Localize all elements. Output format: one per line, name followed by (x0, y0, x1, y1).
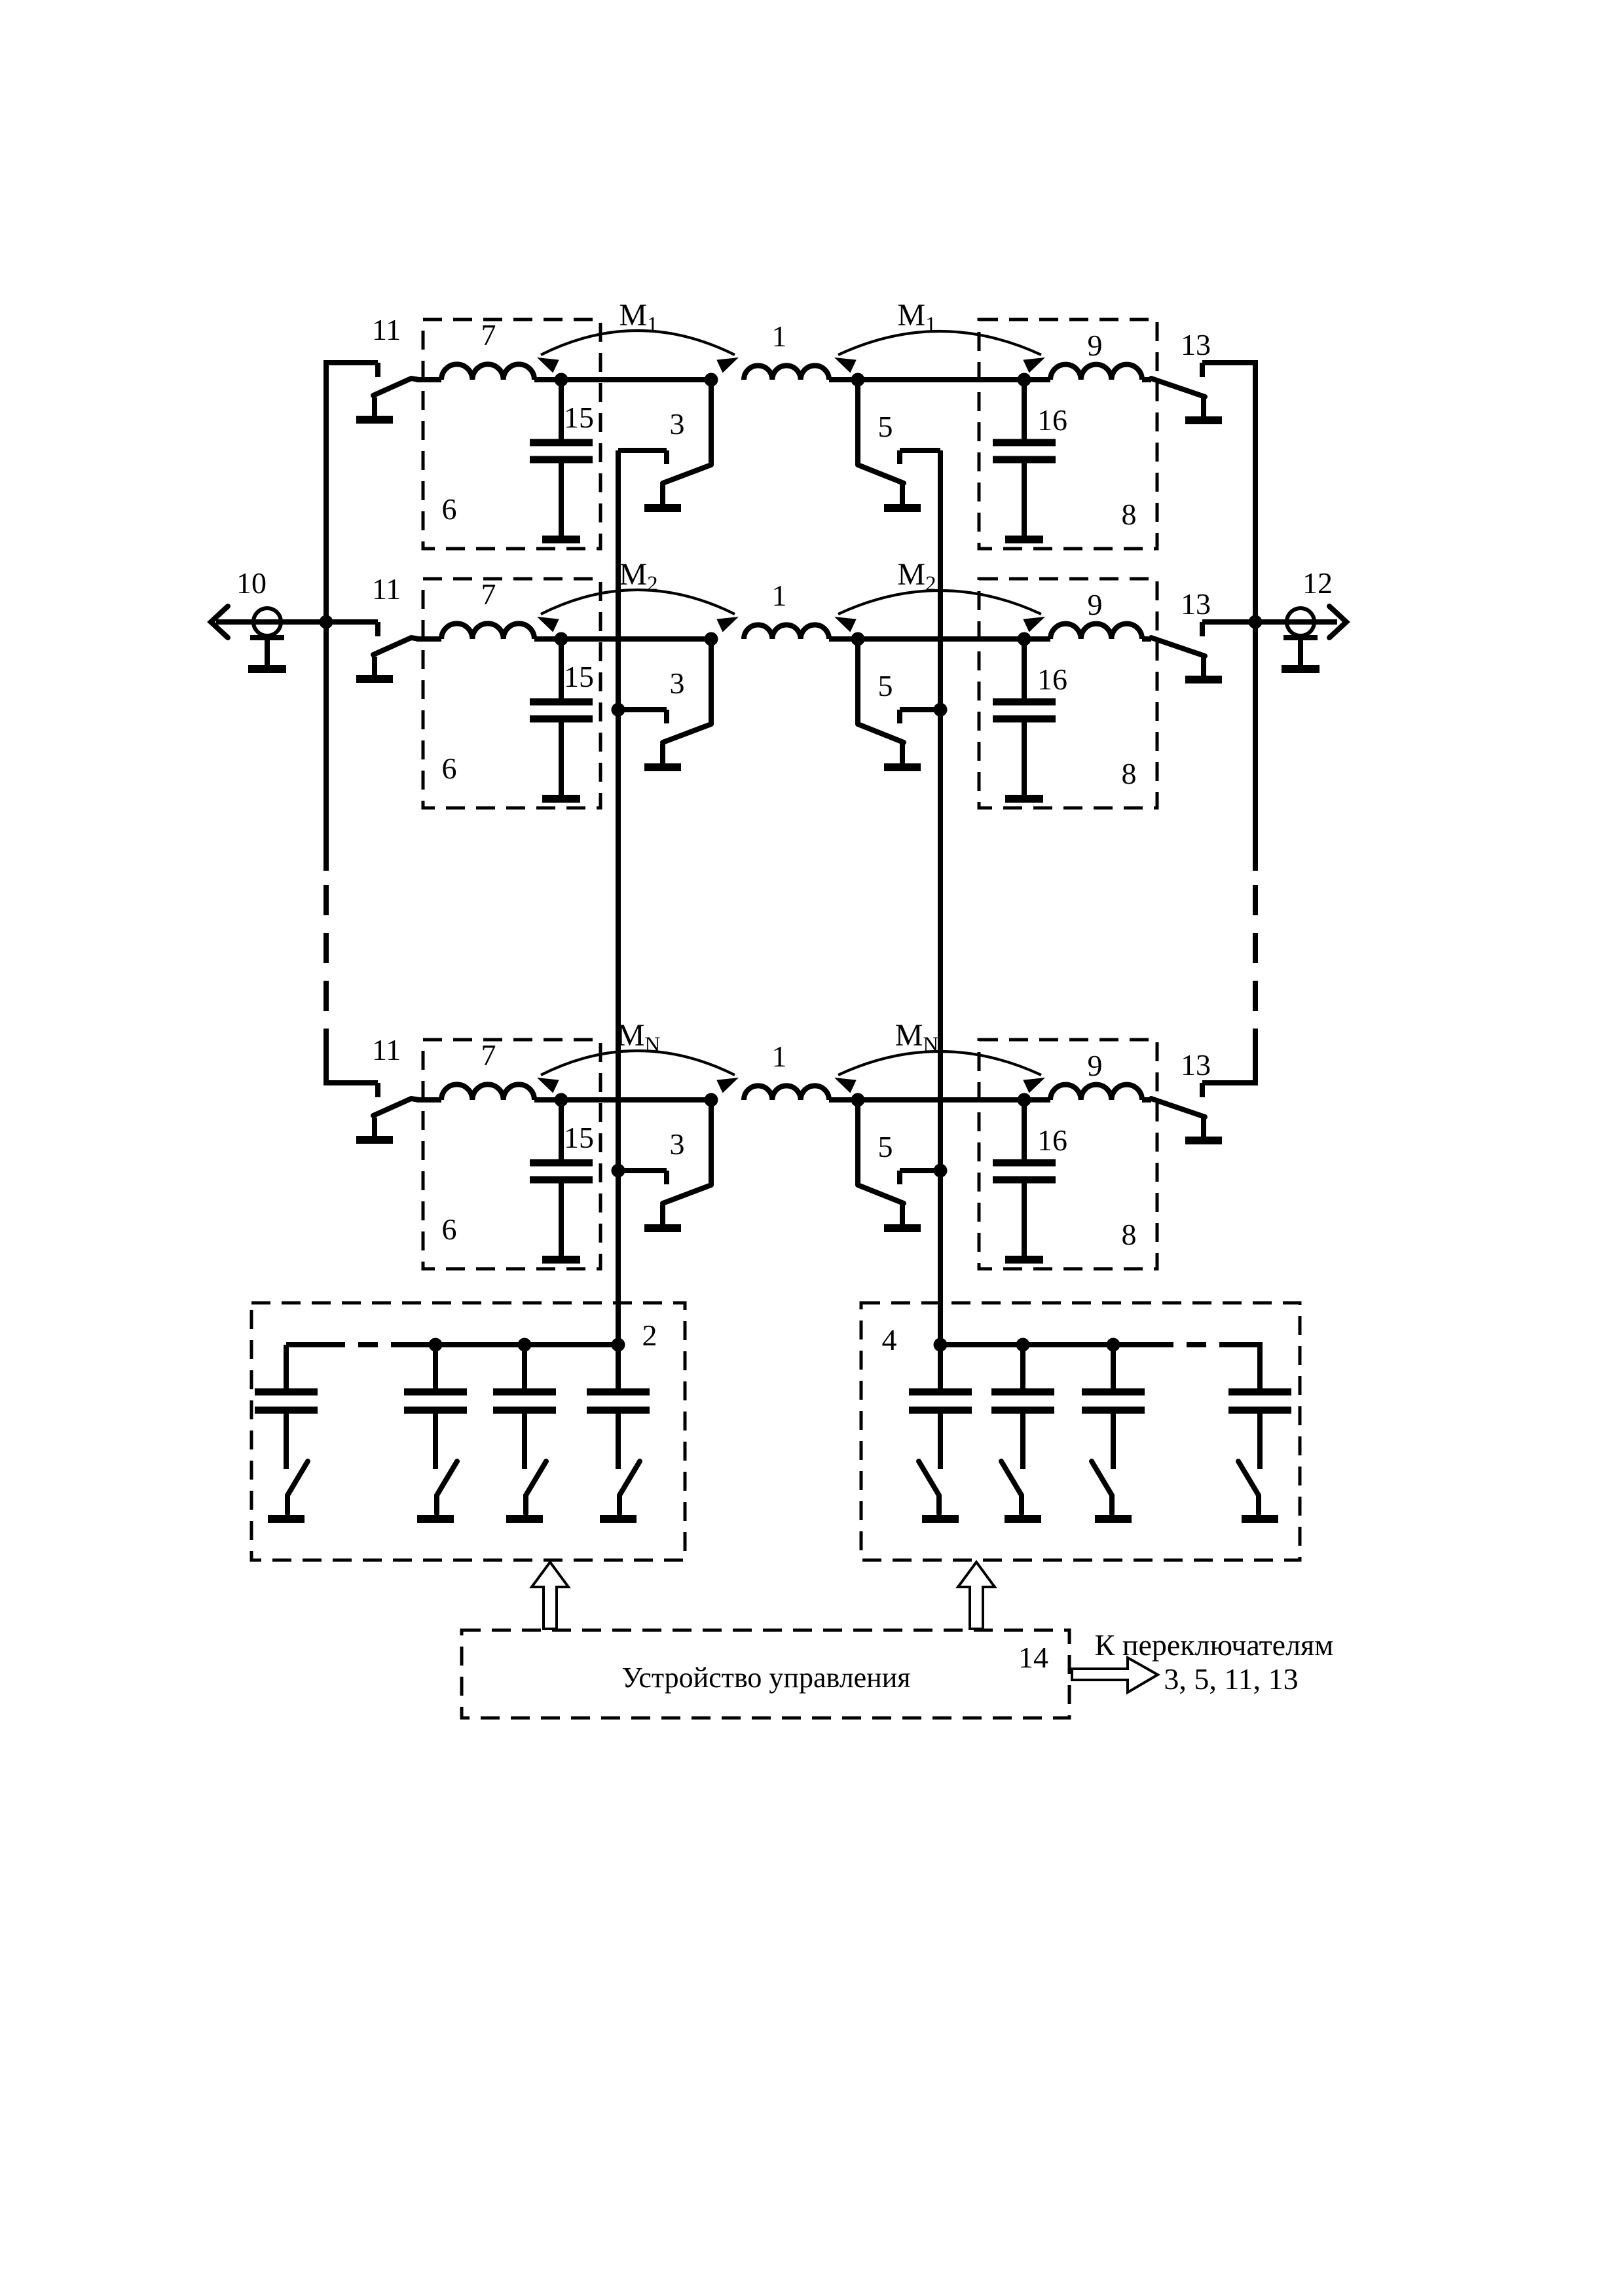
label 11 (row2) (372, 572, 401, 606)
svg-text:11: 11 (372, 572, 401, 606)
switch 3 ground (row3) (644, 1205, 681, 1228)
bank 4 switch 1 (919, 1461, 939, 1514)
label К переключателям (1095, 1628, 1334, 1662)
coupling arc M1 right (row1) (834, 331, 1045, 373)
svg-text:8: 8 (1122, 1218, 1137, 1251)
wire bank 4 bus solid (940, 1342, 1154, 1347)
node bank 2 bus / control line (612, 1338, 625, 1352)
bank 2 switch 3 (526, 1461, 546, 1514)
bank 4 capacitor 1 (909, 1345, 972, 1469)
svg-text:11: 11 (372, 1033, 401, 1066)
wire row input (row1) (416, 377, 441, 382)
label M2 right (row2) (897, 557, 936, 596)
svg-text:16: 16 (1037, 663, 1067, 696)
bank 2 ground 2 (417, 1515, 454, 1523)
coupling arc M2 left (row2) (537, 590, 739, 632)
wire bank 2 bus solid (394, 1342, 618, 1347)
switch 5 ground (row2) (884, 744, 921, 767)
label 13 (row2) (1181, 587, 1211, 621)
label 8 (row2) (1122, 757, 1137, 790)
bank 2 capacitor 2 (404, 1345, 467, 1469)
port 10 terminal circle (253, 608, 281, 636)
wire right bus dashed continuation (1253, 885, 1258, 1055)
resonator block 8 dashed box (row1) (979, 319, 1157, 549)
label 1 (row1) (772, 319, 787, 353)
label 5 (row2) (878, 669, 893, 702)
switch 3 control contact (row3) (618, 1171, 667, 1184)
label 4 (882, 1323, 897, 1357)
svg-text:Устройство управления: Устройство управления (621, 1662, 910, 1694)
resonator block 8 dashed box (row3) (979, 1040, 1157, 1269)
switch 5 control contact (row3) (900, 1171, 940, 1184)
node port 10 / left bus junction (320, 615, 333, 629)
switch 11 arm (row3) (373, 1099, 419, 1116)
node control line right / switch 5 (row3) (934, 1164, 948, 1178)
label 16 (row1) (1037, 403, 1067, 437)
switch 13 ground (row2) (1185, 657, 1222, 680)
wire node 5 to inductor 9 (row2) (858, 636, 1050, 642)
svg-text:К переключателям: К переключателям (1095, 1628, 1334, 1662)
wire node 5 to inductor 9 (row1) (858, 377, 1050, 382)
switch 3 ground (row2) (644, 744, 681, 767)
port 12 ground (1282, 638, 1319, 669)
wire row input (row2) (416, 636, 441, 642)
node bank 2 capacitor 2 (429, 1338, 443, 1352)
svg-text:6: 6 (442, 752, 457, 785)
switch 11 ground (row1) (356, 397, 393, 420)
inductor 7 (row1) (441, 364, 534, 380)
svg-text:3: 3 (670, 666, 685, 700)
control device 14 dashed box (462, 1630, 1069, 1718)
node port 12 / right bus junction (1249, 615, 1263, 629)
svg-text:10: 10 (236, 566, 267, 600)
wire left bus dashed continuation (323, 885, 329, 1055)
label 9 (row2) (1088, 588, 1103, 621)
label 1 (row2) (772, 579, 787, 612)
switch 13 arm (row1) (1151, 378, 1205, 397)
switch 11 contact tick (row2) (375, 622, 380, 636)
svg-text:12: 12 (1302, 566, 1333, 600)
label 15 (row1) (564, 401, 594, 434)
inductor 1 (row3) (744, 1085, 829, 1100)
capacitor 15 ground (row2) (542, 795, 580, 803)
svg-text:1: 1 (772, 319, 787, 353)
wire node 15 to node 3 (row3) (534, 1097, 711, 1102)
control bus arrow to bank 2 (532, 1562, 568, 1629)
svg-text:13: 13 (1181, 587, 1211, 621)
node bank 4 bus / control line (934, 1338, 948, 1352)
wire bank 2 bus solid left (286, 1342, 325, 1347)
label 3 (row2) (670, 666, 685, 700)
resonator block 8 dashed box (row2) (979, 579, 1157, 808)
capacitor 16 (row3) (993, 1100, 1056, 1256)
svg-text:2: 2 (642, 1319, 657, 1352)
wire inductor 9 out (row1) (1142, 377, 1151, 382)
svg-text:15: 15 (564, 660, 594, 693)
bank 4 switch 3 (1092, 1461, 1112, 1514)
switch 13 contact tick (row2) (1200, 622, 1205, 636)
label 6 (row1) (442, 492, 457, 526)
label 11 (row1) (372, 313, 401, 346)
svg-text:9: 9 (1088, 1049, 1103, 1082)
wire left bus upper (solid) (326, 363, 378, 871)
label 7 (row1) (481, 318, 496, 352)
bank 4 capacitor 4 (1228, 1345, 1291, 1469)
capacitor 15 ground (row3) (542, 1256, 580, 1264)
label 12 (1302, 566, 1333, 600)
inductor 7 (row3) (441, 1084, 534, 1100)
capacitor 15 (row2) (530, 639, 593, 795)
resonator block 6 dashed box (row3) (423, 1040, 600, 1269)
node control line left / switch 3 (row3) (612, 1164, 625, 1178)
wire inductor 9 out (row3) (1142, 1097, 1151, 1102)
capacitor bank 2 dashed box (251, 1303, 685, 1560)
label 14 (1018, 1641, 1048, 1674)
switch 13 ground (row3) (1185, 1118, 1222, 1140)
svg-text:15: 15 (564, 1121, 594, 1154)
label 8 (row3) (1122, 1218, 1137, 1251)
port 12 terminal circle (1287, 608, 1314, 636)
switch 5 control contact (row1) (900, 450, 940, 464)
bank 4 ground 2 (1005, 1515, 1041, 1523)
node capacitor-15 junction (row1) (555, 373, 568, 387)
label MN left (row3) (617, 1018, 661, 1057)
port 10 ground (248, 638, 286, 669)
label M1 right (row1) (897, 298, 936, 337)
label 7 (row3) (481, 1038, 496, 1072)
bank 4 ground 1 (922, 1515, 959, 1523)
svg-text:16: 16 (1037, 1123, 1067, 1157)
svg-text:7: 7 (481, 1038, 496, 1072)
svg-text:3, 5, 11, 13: 3, 5, 11, 13 (1164, 1662, 1298, 1696)
label 6 (row3) (442, 1212, 457, 1246)
bank 2 switch 2 (437, 1461, 457, 1514)
bank 2 ground 4 (600, 1515, 637, 1523)
label 2 (642, 1319, 657, 1352)
svg-text:7: 7 (481, 318, 496, 352)
switch 5 arm (row2) (858, 639, 904, 742)
switch 5 arm (row1) (858, 380, 904, 483)
svg-text:11: 11 (372, 313, 401, 346)
wire row input (row3) (416, 1097, 441, 1102)
capacitor 16 ground (row2) (1005, 795, 1043, 803)
switch 5 ground (row3) (884, 1205, 921, 1228)
wire bank 4 bus dashed (1154, 1342, 1226, 1347)
label 6 (row2) (442, 752, 457, 785)
label 1 (row3) (772, 1040, 787, 1073)
switch 5 arm (row3) (858, 1100, 904, 1203)
wire inductor 9 out (row2) (1142, 636, 1151, 642)
switch 11 ground (row3) (356, 1118, 393, 1140)
capacitor 16 (row2) (993, 639, 1056, 795)
label 3 (row1) (670, 407, 685, 441)
svg-text:6: 6 (442, 1212, 457, 1246)
coupling arc M2 right (row2) (834, 591, 1045, 632)
svg-text:5: 5 (878, 410, 893, 443)
svg-text:5: 5 (878, 1130, 893, 1163)
capacitor bank 4 dashed box (861, 1303, 1300, 1560)
inductor 7 (row2) (441, 623, 534, 639)
node switch-5 junction (row3) (851, 1093, 865, 1107)
label 3, 5, 11, 13 (1164, 1662, 1298, 1696)
label 11 (row3) (372, 1033, 401, 1066)
wire control line left (to switches 3) (616, 450, 621, 1345)
wire left bus lower corner (326, 1055, 378, 1083)
switch 13 contact tick (row3) (1200, 1083, 1205, 1097)
bank 4 switch 4 (1238, 1461, 1259, 1514)
node control line left / switch 3 (row2) (612, 703, 625, 717)
control bus arrow to switches (1072, 1658, 1158, 1692)
svg-text:8: 8 (1122, 757, 1137, 790)
node switch-3 junction (row1) (705, 373, 718, 387)
inductor 1 (row2) (744, 625, 829, 639)
resonator block 6 dashed box (row1) (423, 319, 600, 549)
wire control line right (to switches 5) (938, 450, 943, 1345)
wire port 10 line (216, 619, 378, 625)
svg-text:9: 9 (1088, 329, 1103, 362)
svg-text:5: 5 (878, 669, 893, 702)
node capacitor-16 junction (row2) (1018, 632, 1031, 646)
label 8 (row1) (1122, 498, 1137, 531)
node capacitor-16 junction (row1) (1018, 373, 1031, 387)
label 9 (row1) (1088, 329, 1103, 362)
label 16 (row2) (1037, 663, 1067, 696)
capacitor 16 ground (row1) (1005, 536, 1043, 543)
wire inductor1 to node 5 (row3) (829, 1097, 858, 1102)
bank 2 ground 3 (506, 1515, 543, 1523)
bank 2 switch 1 (287, 1461, 308, 1514)
capacitor 16 (row1) (993, 380, 1056, 536)
switch 3 arm (row1) (663, 380, 711, 483)
switch 11 ground (row2) (356, 657, 393, 679)
switch 5 ground (row1) (884, 484, 921, 508)
capacitor 16 ground (row3) (1005, 1256, 1043, 1264)
switch 11 arm (row1) (373, 378, 419, 395)
node bank 4 capacitor 3 (1107, 1338, 1120, 1352)
switch 3 ground (row1) (644, 484, 681, 508)
label M2 left (row2) (619, 557, 657, 596)
node capacitor-16 junction (row3) (1018, 1093, 1031, 1107)
svg-text:1: 1 (772, 579, 787, 612)
switch 13 ground (row1) (1185, 398, 1222, 420)
resonator block 6 dashed box (row2) (423, 579, 600, 808)
svg-text:3: 3 (670, 407, 685, 441)
wire bank 2 bus dashed (325, 1342, 394, 1347)
switch 3 control contact (row2) (618, 710, 667, 723)
node bank 4 capacitor 2 (1016, 1338, 1030, 1352)
node capacitor-15 junction (row2) (555, 632, 568, 646)
svg-text:13: 13 (1181, 1048, 1211, 1082)
svg-text:15: 15 (564, 401, 594, 434)
port 12 arrow (1329, 606, 1346, 638)
switch 13 arm (row3) (1151, 1099, 1205, 1117)
control bus arrow to bank 4 (958, 1562, 995, 1629)
svg-text:1: 1 (772, 1040, 787, 1073)
label 7 (row2) (481, 577, 496, 611)
bank 4 switch 2 (1001, 1461, 1022, 1514)
label 13 (row3) (1181, 1048, 1211, 1082)
node bank 2 capacitor 3 (518, 1338, 532, 1352)
bank 4 ground 4 (1242, 1515, 1278, 1523)
switch 11 contact tick (row3) (375, 1083, 380, 1097)
label 5 (row3) (878, 1130, 893, 1163)
node switch-5 junction (row2) (851, 632, 865, 646)
node capacitor-15 junction (row3) (555, 1093, 568, 1107)
port 10 arrow (211, 606, 228, 638)
svg-text:16: 16 (1037, 403, 1067, 437)
wire node 15 to node 3 (row2) (534, 636, 711, 642)
bank 2 capacitor 1 (255, 1345, 318, 1469)
wire right bus upper (solid) (1202, 363, 1255, 871)
node control line right / switch 5 (row2) (934, 703, 948, 717)
switch 11 arm (row2) (373, 638, 419, 655)
coupling arc MN right (row3) (834, 1051, 1045, 1093)
wire inductor1 to node 5 (row2) (829, 636, 858, 642)
switch 13 contact tick (row1) (1200, 363, 1205, 377)
label 3 (row3) (670, 1127, 685, 1161)
wire right bus lower corner (1202, 1055, 1255, 1083)
svg-text:4: 4 (882, 1323, 897, 1357)
switch 5 control contact (row2) (900, 710, 940, 723)
label M1 left (row1) (619, 298, 657, 337)
coupling arc M1 left (row1) (537, 331, 739, 373)
svg-text:3: 3 (670, 1127, 685, 1161)
inductor 9 (row1) (1050, 365, 1142, 380)
switch 3 control contact (row1) (618, 450, 667, 464)
wire bank 4 bus right corner (1226, 1345, 1260, 1391)
switch 11 contact tick (row1) (375, 363, 380, 377)
label MN right (row3) (895, 1018, 939, 1057)
bank 2 capacitor 3 (493, 1345, 556, 1469)
bank 2 capacitor 4 (587, 1345, 650, 1469)
bank 2 switch 4 (619, 1461, 640, 1514)
svg-text:8: 8 (1122, 498, 1137, 531)
label 9 (row3) (1088, 1049, 1103, 1082)
svg-text:6: 6 (442, 492, 457, 526)
label 15 (row2) (564, 660, 594, 693)
label 13 (row1) (1181, 328, 1211, 361)
wire port 12 line (1202, 619, 1337, 625)
svg-text:7: 7 (481, 577, 496, 611)
label 10 (236, 566, 267, 600)
bank 4 capacitor 3 (1082, 1345, 1145, 1469)
wire node 15 to node 3 (row1) (534, 377, 711, 382)
node switch-3 junction (row3) (705, 1093, 718, 1107)
svg-text:9: 9 (1088, 588, 1103, 621)
inductor 9 (row2) (1050, 624, 1142, 639)
coupling arc MN left (row3) (537, 1051, 739, 1093)
bank 4 ground 3 (1095, 1515, 1132, 1523)
node switch-3 junction (row2) (705, 632, 718, 646)
inductor 1 (row1) (744, 365, 829, 380)
switch 3 arm (row2) (663, 639, 711, 742)
capacitor 15 (row1) (530, 380, 593, 536)
label 5 (row1) (878, 410, 893, 443)
capacitor 15 ground (row1) (542, 536, 580, 543)
capacitor 15 (row3) (530, 1100, 593, 1256)
bank 4 capacitor 2 (991, 1345, 1054, 1469)
switch 3 arm (row3) (663, 1100, 711, 1203)
label 16 (row3) (1037, 1123, 1067, 1157)
label 15 (row3) (564, 1121, 594, 1154)
svg-text:14: 14 (1018, 1641, 1048, 1674)
wire inductor1 to node 5 (row1) (829, 377, 858, 382)
svg-text:13: 13 (1181, 328, 1211, 361)
wire node 5 to inductor 9 (row3) (858, 1097, 1050, 1102)
label Устройство управления (621, 1662, 910, 1694)
switch 13 arm (row2) (1151, 638, 1205, 656)
bank 2 ground 1 (268, 1515, 304, 1523)
inductor 9 (row3) (1050, 1085, 1142, 1100)
node switch-5 junction (row1) (851, 373, 865, 387)
